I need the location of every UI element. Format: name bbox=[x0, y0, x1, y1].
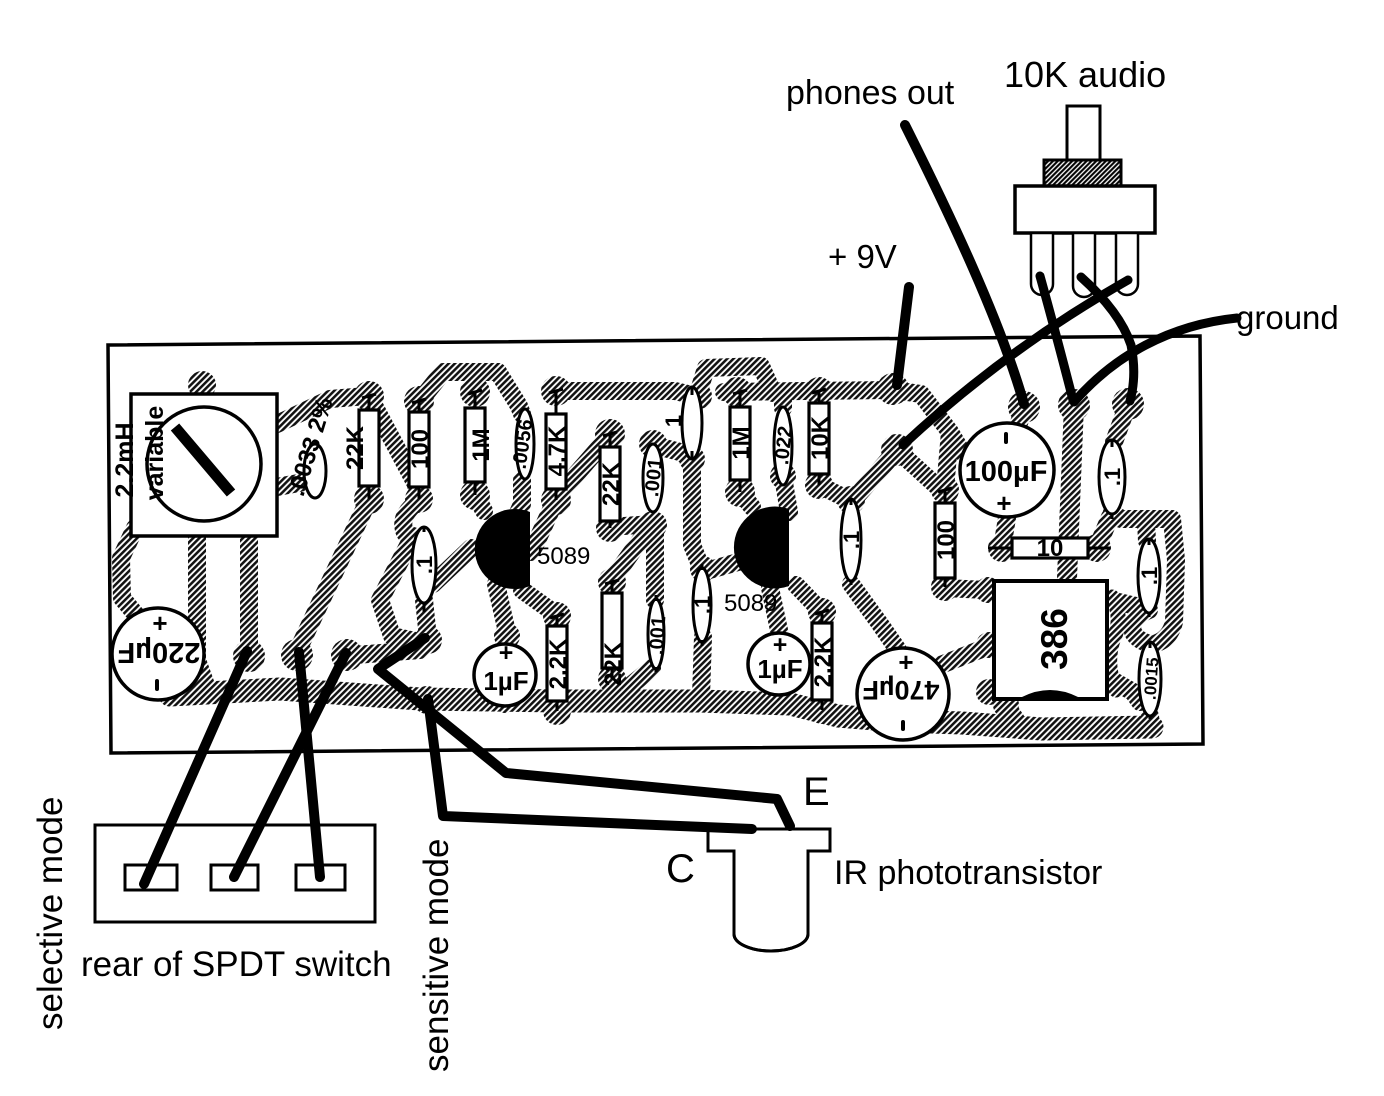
svg-text:variable: variable bbox=[141, 406, 169, 501]
svg-text:10: 10 bbox=[1037, 535, 1064, 562]
svg-text:+: + bbox=[152, 608, 167, 638]
svg-text:.1: .1 bbox=[690, 596, 715, 614]
svg-text:1M: 1M bbox=[728, 426, 755, 459]
svg-text:phones out: phones out bbox=[786, 74, 955, 112]
svg-text:5089: 5089 bbox=[724, 590, 777, 617]
svg-text:10K: 10K bbox=[807, 415, 834, 460]
svg-text:220µF: 220µF bbox=[118, 636, 201, 668]
svg-text:.1: .1 bbox=[412, 556, 437, 574]
svg-text:+: + bbox=[499, 639, 514, 667]
svg-text:2.2mH: 2.2mH bbox=[111, 422, 139, 497]
svg-text:100: 100 bbox=[407, 429, 434, 469]
svg-text:22K: 22K bbox=[598, 461, 625, 506]
svg-text:5089: 5089 bbox=[537, 543, 590, 570]
svg-text:.1: .1 bbox=[1100, 468, 1125, 486]
svg-text:+ 9V: + 9V bbox=[828, 238, 897, 275]
svg-text:selective mode: selective mode bbox=[31, 797, 70, 1030]
svg-text:ground: ground bbox=[1236, 299, 1339, 336]
svg-text:.1: .1 bbox=[839, 531, 864, 549]
svg-text:4.7K: 4.7K bbox=[544, 425, 571, 476]
svg-text:.001: .001 bbox=[646, 615, 671, 655]
svg-text:.0015: .0015 bbox=[1141, 657, 1163, 701]
svg-text:22K: 22K bbox=[342, 425, 369, 470]
svg-text:IR phototransistor: IR phototransistor bbox=[834, 854, 1102, 892]
svg-text:1µF: 1µF bbox=[483, 666, 528, 696]
svg-text:1M: 1M bbox=[468, 428, 495, 461]
svg-text:22K: 22K bbox=[600, 641, 627, 686]
svg-text:+: + bbox=[773, 631, 788, 659]
svg-text:.001: .001 bbox=[641, 457, 667, 498]
svg-text:1: 1 bbox=[661, 415, 686, 427]
svg-text:+: + bbox=[898, 647, 913, 677]
svg-text:.1: .1 bbox=[1137, 567, 1162, 585]
svg-text:+: + bbox=[996, 488, 1011, 518]
svg-text:2.2K: 2.2K bbox=[810, 636, 837, 687]
svg-text:sensitive mode: sensitive mode bbox=[417, 839, 456, 1072]
svg-text:10K audio: 10K audio bbox=[1004, 54, 1166, 95]
svg-text:386: 386 bbox=[1034, 608, 1075, 670]
svg-text:C: C bbox=[666, 847, 695, 891]
svg-text:.022: .022 bbox=[771, 425, 797, 466]
svg-text:E: E bbox=[803, 770, 830, 814]
svg-text:2.2K: 2.2K bbox=[545, 638, 572, 689]
svg-text:470µF: 470µF bbox=[862, 675, 939, 705]
svg-text:rear of SPDT switch: rear of SPDT switch bbox=[81, 945, 392, 984]
svg-text:100: 100 bbox=[933, 520, 960, 560]
svg-text:100µF: 100µF bbox=[965, 456, 1048, 488]
